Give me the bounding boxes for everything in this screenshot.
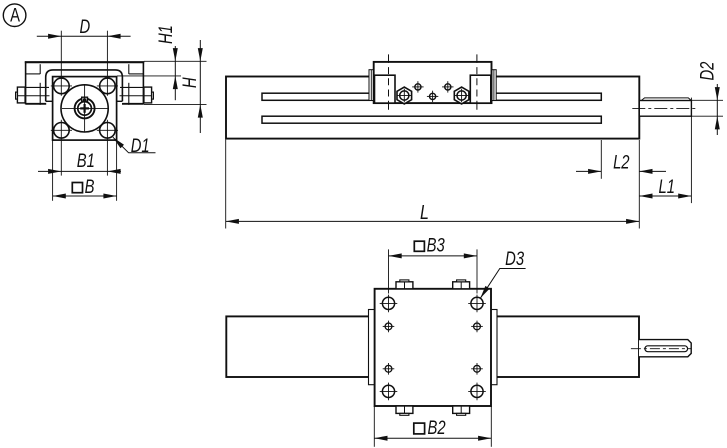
dimension H1: [174, 46, 176, 100]
hex nut left: [397, 87, 412, 104]
dimension D: [37, 35, 131, 37]
dimension L2: [576, 170, 601, 172]
small hole B4: [474, 365, 481, 372]
flange plate square: [53, 77, 117, 141]
svg-text:B: B: [85, 176, 95, 197]
carriage body: [374, 62, 492, 103]
svg-text:L2: L2: [613, 152, 630, 173]
hub top tab: [82, 97, 88, 101]
carriage plate (plan): [375, 289, 491, 406]
small hole B3: [385, 365, 392, 372]
shaft extension line / end (right): [690, 98, 692, 204]
rail body (plan): [226, 316, 639, 377]
lug top left: [26, 86, 49, 88]
hole top-right: [100, 78, 116, 94]
thread slot on shaft: [645, 346, 688, 352]
bracket bottom right: [122, 103, 143, 105]
port circle 2: [445, 84, 451, 90]
dimension L1: [639, 195, 691, 197]
hole centerlines vertical + D/B1 extension lines: [60, 31, 62, 96]
svg-text:H1: H1: [155, 25, 176, 44]
hole top-left: [54, 78, 70, 94]
bracket top edge: [25, 61, 144, 63]
shaft (plan): [639, 340, 691, 357]
bolt hole A4: [471, 385, 483, 397]
svg-text:D: D: [80, 16, 91, 37]
bracket left edge: [25, 61, 27, 104]
leader D3: [480, 269, 525, 299]
carriage left clamp block: [375, 75, 396, 103]
svg-text:B1: B1: [77, 150, 95, 171]
svg-text:D1: D1: [131, 135, 150, 156]
top screw tabs: [396, 282, 413, 289]
svg-text:B3: B3: [427, 235, 446, 256]
carriage right clamp block: [470, 75, 491, 103]
port circle 1: [415, 84, 421, 90]
shaft centerline: [632, 107, 695, 109]
square-B extension lines: [52, 140, 54, 201]
upper T-slot: [262, 93, 601, 100]
lug top right: [120, 86, 143, 88]
svg-text:L: L: [420, 200, 429, 223]
svg-text:L1: L1: [658, 176, 674, 197]
bracket underside line left: [26, 73, 41, 75]
carriage end strip left: [369, 310, 375, 385]
dimension L: [226, 220, 640, 222]
right screw axis line: [120, 95, 152, 97]
hub inner circle: [78, 102, 92, 116]
left screw axis line: [18, 95, 50, 97]
center axis vertical: [84, 84, 86, 132]
bolt hole A2: [471, 297, 483, 309]
bolt hole A3: [382, 385, 394, 397]
dimension square-B3: [388, 249, 390, 293]
svg-text:B2: B2: [428, 417, 447, 438]
bottom screw tabs: [396, 406, 413, 413]
hole bottom-right: [100, 123, 116, 139]
bracket bottom left: [26, 103, 47, 105]
port circle center: [430, 93, 436, 99]
shaft centerline (plan): [631, 348, 692, 350]
carriage bolt centerline right: [476, 54, 478, 110]
hub cross horizontal: [80, 107, 89, 109]
flange pilot circle: [61, 85, 108, 132]
view label A circle: [3, 4, 26, 27]
svg-text:A: A: [10, 5, 20, 26]
clamp window rounded profile: [46, 70, 123, 101]
small hole B1: [385, 323, 392, 330]
lower T-slot: [262, 116, 601, 123]
shaft side view: [639, 101, 691, 117]
bolt hole A1: [382, 297, 394, 309]
dimension square-B2: [373, 406, 375, 447]
carriage end strip right: [491, 310, 497, 385]
left screw end cap: [16, 92, 18, 99]
bracket right edge: [142, 61, 144, 104]
dimension H: [199, 40, 201, 133]
center axis horizontal: [62, 107, 108, 109]
dimension D2: [689, 99, 723, 101]
bracket underside line right: [129, 73, 144, 75]
hub cross vertical: [83, 104, 85, 113]
small hole B2: [474, 323, 481, 330]
hex nut right: [454, 87, 469, 104]
svg-text:D3: D3: [505, 248, 524, 269]
carriage left end plate: [369, 70, 374, 101]
hole bottom-left: [54, 123, 70, 139]
hub outer circle: [75, 98, 95, 118]
rail body: [226, 77, 639, 139]
bracket inner wall left upper: [39, 64, 41, 74]
bracket inner wall right upper: [128, 64, 130, 74]
right screw end cap: [152, 92, 154, 99]
dimension square-B: [53, 195, 117, 197]
leader D1: [113, 137, 156, 153]
left clamping screw head: [17, 87, 25, 103]
extension lines for H1/H: [144, 60, 207, 62]
dimension B1: [38, 170, 121, 172]
carriage bolt centerline left: [388, 54, 390, 110]
window bottom right: [117, 100, 123, 102]
svg-text:H: H: [179, 77, 200, 88]
svg-text:D2: D2: [697, 61, 718, 80]
window bottom left: [46, 100, 53, 102]
thread crest line: [641, 98, 691, 101]
right clamping screw head: [144, 87, 152, 103]
bracket inner wall left lower: [39, 83, 41, 105]
carriage right end plate: [492, 70, 497, 101]
bracket inner wall right lower: [128, 83, 130, 105]
